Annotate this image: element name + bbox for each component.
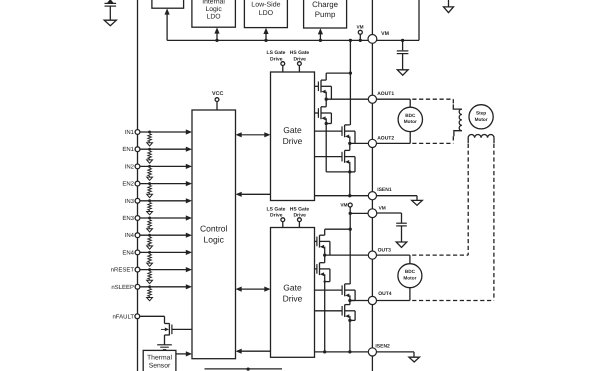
svg-text:Motor: Motor: [404, 119, 417, 124]
svg-text:Drive: Drive: [270, 213, 283, 219]
svg-text:IN3: IN3: [125, 198, 135, 205]
svg-text:Motor: Motor: [403, 276, 416, 281]
svg-text:LDO: LDO: [207, 14, 221, 21]
svg-text:HS Gate: HS Gate: [290, 206, 310, 212]
svg-text:Thermal: Thermal: [147, 354, 172, 361]
svg-text:EN1: EN1: [122, 146, 134, 153]
svg-text:VM: VM: [379, 205, 386, 211]
svg-text:VCC: VCC: [212, 91, 223, 97]
svg-text:OUT4: OUT4: [378, 291, 392, 297]
svg-text:HS Gate: HS Gate: [290, 50, 310, 56]
svg-text:EN3: EN3: [122, 215, 134, 222]
svg-text:IN2: IN2: [125, 163, 135, 170]
svg-text:Gate: Gate: [283, 125, 302, 135]
svg-text:ISEN1: ISEN1: [377, 187, 392, 193]
svg-text:nSLEEP: nSLEEP: [111, 284, 134, 291]
svg-text:AOUT1: AOUT1: [377, 91, 394, 97]
svg-text:Sensor: Sensor: [149, 363, 171, 370]
svg-text:Gate: Gate: [283, 282, 302, 292]
svg-text:Drive: Drive: [283, 293, 303, 303]
svg-text:Drive: Drive: [293, 213, 306, 219]
svg-text:BDC: BDC: [405, 269, 416, 274]
svg-text:EN2: EN2: [122, 181, 134, 188]
svg-text:AOUT2: AOUT2: [377, 135, 394, 141]
svg-text:Logic: Logic: [205, 6, 222, 13]
svg-text:IN1: IN1: [125, 129, 135, 136]
svg-text:Internal: Internal: [202, 0, 225, 6]
svg-text:LS Gate: LS Gate: [267, 50, 286, 56]
svg-text:LDO: LDO: [259, 10, 274, 17]
svg-text:Step: Step: [476, 111, 486, 116]
svg-text:Motor: Motor: [475, 117, 488, 122]
svg-text:ISEN2: ISEN2: [375, 343, 390, 349]
svg-text:Low-Side: Low-Side: [251, 0, 280, 8]
svg-text:EN4: EN4: [122, 249, 134, 256]
svg-text:Logic: Logic: [204, 234, 225, 244]
svg-text:nRESET: nRESET: [111, 267, 135, 274]
svg-text:VM: VM: [340, 203, 347, 208]
svg-text:BDC: BDC: [405, 113, 416, 118]
svg-text:LS Gate: LS Gate: [267, 206, 286, 212]
svg-text:OUT3: OUT3: [378, 247, 392, 253]
svg-text:VM: VM: [356, 25, 363, 30]
svg-text:IN4: IN4: [125, 232, 135, 239]
svg-text:Drive: Drive: [270, 57, 283, 63]
svg-text:nFAULT: nFAULT: [112, 313, 134, 320]
svg-text:Drive: Drive: [293, 57, 306, 63]
svg-text:Charge: Charge: [312, 0, 338, 9]
svg-text:VM: VM: [381, 31, 389, 37]
svg-text:Drive: Drive: [283, 136, 303, 146]
svg-text:Control: Control: [200, 223, 228, 233]
svg-text:Pump: Pump: [315, 10, 336, 19]
